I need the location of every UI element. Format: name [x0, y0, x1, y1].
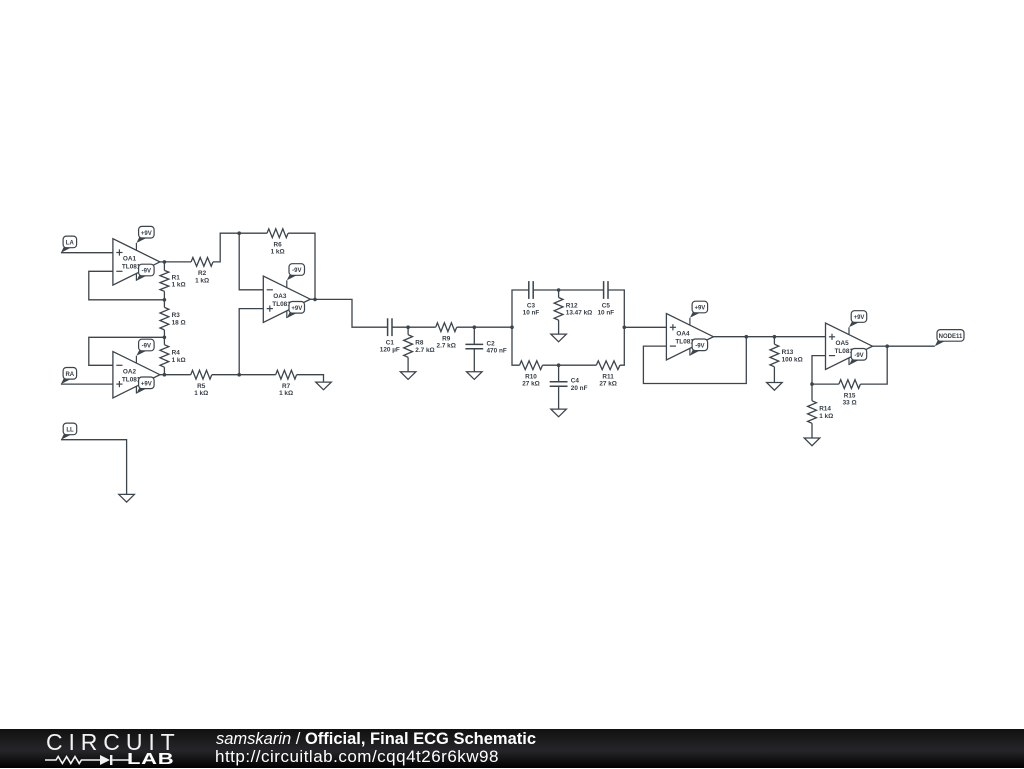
node R9-C2 — [473, 325, 477, 329]
svg-text:10 nF: 10 nF — [523, 309, 540, 316]
power flag +9V of OA2 — [136, 377, 154, 394]
svg-text:+9V: +9V — [291, 306, 302, 312]
svg-text:R11: R11 — [602, 373, 614, 380]
resistor R12 — [554, 298, 592, 321]
svg-text:OA4: OA4 — [676, 331, 690, 338]
net flag LL — [61, 423, 77, 440]
svg-text:C2: C2 — [487, 340, 496, 347]
resistor R6 — [267, 229, 288, 256]
svg-text:1 kΩ: 1 kΩ — [819, 413, 833, 420]
resistor R14 — [808, 401, 834, 424]
wire — [239, 374, 276, 376]
wire — [457, 326, 475, 328]
svg-text:1 kΩ: 1 kΩ — [279, 390, 293, 397]
op-amp OA1 TL081 — [113, 239, 160, 285]
power flag -9V of OA5 — [849, 349, 867, 366]
wire OA5 output down to R15 — [860, 346, 887, 384]
wire left rail down to R10 — [512, 327, 520, 365]
wire — [558, 365, 560, 382]
wire — [163, 300, 165, 308]
svg-text:1 kΩ: 1 kΩ — [172, 357, 186, 364]
svg-text:TL081: TL081 — [272, 301, 291, 308]
svg-text:OA3: OA3 — [273, 293, 287, 300]
wire — [559, 289, 604, 291]
svg-text:1 kΩ: 1 kΩ — [195, 277, 209, 284]
power flag -9V of OA3 — [287, 264, 305, 281]
svg-text:13.47 kΩ: 13.47 kΩ — [566, 310, 592, 317]
wire OA5 output — [873, 345, 888, 347]
ground for R14 — [804, 438, 820, 446]
svg-text:20 nF: 20 nF — [571, 385, 588, 392]
wire LL to ground — [61, 440, 127, 495]
svg-text:C5: C5 — [602, 302, 611, 309]
svg-text:+9V: +9V — [694, 306, 705, 312]
op-amp OA3 TL081 — [263, 276, 310, 322]
svg-text:R7: R7 — [282, 383, 291, 390]
wire C2 to ground — [473, 349, 475, 372]
wire to OA3 + — [239, 309, 263, 375]
power flag -9V of OA2 — [136, 339, 154, 356]
wire R6 to OA3 output — [288, 233, 315, 299]
capacitor C4 — [550, 378, 588, 392]
resistor R2 — [191, 258, 213, 285]
svg-text:LA: LA — [66, 241, 75, 247]
node OA3 output — [313, 298, 317, 302]
wire to OA4 + — [624, 326, 666, 328]
wire — [163, 330, 165, 337]
svg-text:C4: C4 — [571, 378, 580, 385]
ground for R13 — [767, 383, 783, 391]
node R15-R14 junction — [810, 382, 814, 386]
svg-text:TL081: TL081 — [675, 339, 694, 346]
node R1-R3 junction — [163, 298, 167, 302]
ground for R7 — [316, 382, 332, 390]
node OA5 output — [885, 344, 889, 348]
node R10-C4-R11 — [557, 363, 561, 367]
resistor R11 — [596, 361, 620, 388]
node filter left rail — [510, 325, 514, 329]
node OA2 output — [163, 373, 167, 377]
svg-text:R9: R9 — [442, 335, 451, 342]
svg-text:1 kΩ: 1 kΩ — [271, 249, 285, 256]
CircuitLab logo text LAB — [127, 751, 174, 769]
node R3-R4 junction — [163, 336, 167, 340]
wire OA3 output to C1 — [315, 299, 388, 327]
wire R14 to ground — [811, 423, 813, 438]
wire — [163, 291, 165, 300]
ground for C2 — [467, 372, 483, 380]
capacitor C1 — [380, 318, 400, 353]
svg-text:RA: RA — [65, 372, 74, 378]
svg-text:R1: R1 — [172, 275, 181, 282]
node C1-R8-R9 — [406, 325, 410, 329]
wire OA2 output — [160, 374, 165, 376]
svg-text:120 µF: 120 µF — [380, 347, 400, 354]
wire to filter block — [474, 326, 512, 328]
svg-text:R5: R5 — [197, 383, 206, 390]
wire — [163, 262, 165, 271]
svg-text:-9V: -9V — [292, 268, 301, 274]
wire — [811, 384, 813, 401]
svg-text:OA5: OA5 — [836, 340, 850, 347]
wire — [163, 367, 165, 375]
footer title — [216, 730, 536, 749]
svg-text:C3: C3 — [527, 302, 536, 309]
CircuitLab logo resistor + diode symbol — [44, 753, 130, 767]
wire R13 to ground — [773, 367, 775, 383]
node R5-R7 junction — [237, 373, 241, 377]
node top rail junction — [237, 231, 241, 235]
wire — [164, 374, 190, 376]
svg-text:-9V: -9V — [854, 353, 863, 359]
svg-text:R14: R14 — [819, 406, 831, 413]
node OA4 output — [745, 335, 749, 339]
svg-text:18 Ω: 18 Ω — [172, 319, 186, 326]
wire — [558, 290, 560, 298]
svg-text:+9V: +9V — [141, 381, 152, 387]
wire LA to OA1 + — [61, 252, 113, 254]
wire to OA5 - — [812, 356, 826, 385]
svg-text:2.7 kΩ: 2.7 kΩ — [415, 347, 434, 354]
wire — [773, 337, 775, 345]
wire — [533, 289, 558, 291]
svg-text:NODE11: NODE11 — [939, 334, 963, 340]
wire — [473, 327, 475, 344]
wire R12 to ground — [558, 320, 560, 334]
svg-text:R10: R10 — [525, 373, 537, 380]
svg-text:R13: R13 — [782, 349, 794, 356]
svg-text:-9V: -9V — [142, 344, 151, 350]
svg-text:-9V: -9V — [142, 269, 151, 275]
wire C5 to right rail — [608, 290, 624, 327]
svg-text:TL081: TL081 — [835, 348, 854, 355]
resistor R9 — [436, 323, 457, 350]
svg-text:R2: R2 — [198, 270, 207, 277]
wire OA1 - feedback — [89, 271, 165, 300]
op-amp OA5 TL081 — [826, 323, 873, 369]
wire — [164, 261, 191, 263]
resistor R8 — [404, 335, 435, 358]
wire R8 to ground — [407, 357, 409, 371]
svg-text:+9V: +9V — [854, 315, 865, 321]
resistor R3 — [160, 307, 186, 330]
wire — [212, 374, 239, 376]
wire — [408, 326, 436, 328]
resistor R13 — [770, 344, 803, 367]
node R13 top — [773, 335, 777, 339]
svg-text:R12: R12 — [566, 302, 578, 309]
resistor R1 — [160, 270, 186, 291]
wire R11 to right rail — [620, 327, 624, 365]
wire R2 to top rail — [213, 233, 239, 262]
wire — [746, 336, 774, 338]
wire to NODE11 — [887, 345, 935, 347]
footer url — [215, 747, 499, 767]
svg-text:2.7 kΩ: 2.7 kΩ — [437, 343, 456, 350]
capacitor C5 — [597, 281, 614, 316]
ground for R12 — [551, 334, 567, 342]
resistor R7 — [276, 370, 297, 397]
ground for LL — [119, 494, 135, 502]
power flag -9V of OA1 — [136, 264, 154, 281]
svg-text:10 nF: 10 nF — [597, 309, 614, 316]
node OA1 output — [163, 260, 167, 264]
svg-text:LL: LL — [66, 428, 74, 434]
wire — [163, 337, 165, 344]
wire left rail up to C3 — [512, 290, 529, 327]
svg-text:1 kΩ: 1 kΩ — [172, 282, 186, 289]
wire RA to OA2 + — [61, 383, 113, 385]
ground for R8 — [400, 372, 416, 380]
wire — [407, 327, 409, 335]
svg-text:C1: C1 — [386, 340, 395, 347]
svg-text:470 nF: 470 nF — [487, 348, 507, 355]
svg-text:R15: R15 — [844, 392, 856, 399]
svg-text:100 kΩ: 100 kΩ — [782, 356, 803, 363]
net flag LA — [61, 236, 77, 253]
wire OA4 - feedback loop — [643, 337, 746, 384]
power flag +9V of OA3 — [287, 302, 305, 319]
node filter output — [623, 326, 627, 330]
svg-text:27 kΩ: 27 kΩ — [522, 381, 540, 388]
wire — [392, 326, 408, 328]
wire OA4 output — [713, 336, 746, 338]
svg-text:R4: R4 — [172, 350, 181, 357]
resistor R10 — [520, 361, 543, 388]
wire — [239, 232, 267, 234]
svg-text:TL081: TL081 — [122, 377, 141, 384]
svg-text:OA1: OA1 — [123, 256, 137, 263]
CircuitLab logo text CIRCUIT — [46, 729, 181, 756]
wire — [543, 364, 559, 366]
resistor R5 — [191, 370, 212, 397]
svg-text:33 Ω: 33 Ω — [843, 400, 857, 407]
wire — [559, 364, 597, 366]
op-amp OA4 TL081 — [666, 314, 713, 360]
wire R7 to ground — [297, 375, 324, 382]
svg-text:-9V: -9V — [695, 343, 704, 349]
wire to OA5 + — [774, 336, 825, 338]
wire OA3 output — [310, 298, 315, 300]
svg-text:R8: R8 — [415, 340, 424, 347]
resistor R4 — [160, 345, 186, 368]
resistor R15 — [839, 380, 861, 407]
svg-text:1 kΩ: 1 kΩ — [194, 390, 208, 397]
node C3-R12-C5 — [557, 288, 561, 292]
net flag RA — [61, 368, 77, 385]
power flag +9V of OA1 — [136, 226, 154, 243]
svg-text:R6: R6 — [274, 241, 283, 248]
capacitor C2 — [465, 340, 506, 354]
wire to OA3 - — [239, 233, 263, 290]
net flag NODE11 — [935, 330, 964, 347]
ground for C4 — [551, 409, 567, 417]
capacitor C3 — [523, 281, 540, 316]
svg-text:TL081: TL081 — [122, 264, 141, 271]
power flag +9V of OA5 — [849, 311, 867, 328]
svg-text:R3: R3 — [172, 312, 181, 319]
power flag +9V of OA4 — [690, 301, 708, 318]
svg-text:27 kΩ: 27 kΩ — [599, 381, 617, 388]
svg-text:OA2: OA2 — [123, 369, 137, 376]
wire C4 to ground — [558, 386, 560, 409]
wire — [812, 383, 839, 385]
wire OA2 - feedback — [89, 337, 165, 365]
op-amp OA2 TL081 — [113, 352, 160, 398]
power flag -9V of OA4 — [690, 339, 708, 356]
svg-text:+9V: +9V — [141, 231, 152, 237]
wire OA1 output — [160, 261, 165, 263]
